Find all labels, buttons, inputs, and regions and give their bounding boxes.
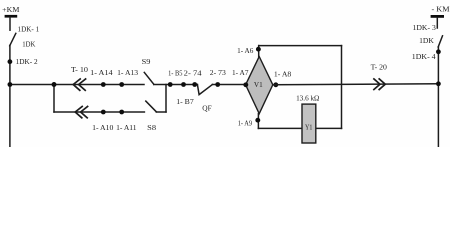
node 2-74 <box>192 82 197 87</box>
node split junction <box>52 82 57 87</box>
svg-text:13.6 kΩ: 13.6 kΩ <box>296 93 320 102</box>
svg-text:S8: S8 <box>147 123 156 132</box>
node T-20 right junction <box>436 81 441 86</box>
node 1-A13 <box>119 82 124 87</box>
wire stub from -KM bar <box>436 18 438 28</box>
wire top loop horizontal <box>259 45 342 47</box>
svg-text:1- B5: 1- B5 <box>168 68 183 77</box>
wire top branch <box>54 84 144 86</box>
svg-text:1- A10: 1- A10 <box>92 123 114 132</box>
svg-text:2- 73: 2- 73 <box>210 68 226 77</box>
svg-text:1DK- 1: 1DK- 1 <box>18 24 40 33</box>
node 1-A11 <box>119 110 124 115</box>
svg-text:+KM: +KM <box>2 5 20 14</box>
svg-text:1- A13: 1- A13 <box>117 68 138 77</box>
wire bottom branch riser right <box>165 85 167 113</box>
switch QF <box>197 85 212 95</box>
wire main horizontal <box>10 84 54 86</box>
wire stub from +KM bar <box>9 17 11 30</box>
svg-text:1- A14: 1- A14 <box>90 68 113 77</box>
connector chevrons bottom branch <box>75 107 87 118</box>
svg-text:1- A9: 1- A9 <box>238 118 253 127</box>
wire after S8 <box>156 111 166 113</box>
node 1-A14 <box>101 82 106 87</box>
switch 1DK left blade <box>10 33 16 45</box>
svg-text:2- 74: 2- 74 <box>184 68 202 77</box>
svg-text:S9: S9 <box>142 57 151 66</box>
wire top loop right drop <box>341 46 343 129</box>
svg-text:1DK: 1DK <box>22 39 36 48</box>
svg-text:T- 20: T- 20 <box>371 63 388 72</box>
connector T-10 chevrons top branch <box>73 79 85 90</box>
svg-text:Y1: Y1 <box>305 122 313 131</box>
svg-text:V1: V1 <box>254 80 263 89</box>
svg-text:QF: QF <box>202 104 211 113</box>
wire bottom branch riser left <box>53 85 55 113</box>
node 1DK-2 <box>7 59 12 64</box>
wire right rail <box>437 47 439 147</box>
switch 1DK right blade <box>438 36 442 47</box>
terminal +KM bar <box>5 15 18 18</box>
connector T-20 chevrons <box>374 79 385 90</box>
node 1DK-4 <box>436 49 441 54</box>
svg-text:1- A8: 1- A8 <box>274 69 292 78</box>
node 1-B7 <box>181 82 186 87</box>
terminal -KM bar <box>431 15 444 18</box>
rectifier V1 <box>246 57 273 114</box>
svg-text:T- 10: T- 10 <box>71 65 88 74</box>
node 1-A9 <box>255 118 260 123</box>
node 1-A8 <box>273 82 278 87</box>
wire V1 bottom stub <box>257 114 259 129</box>
node 2-73 <box>215 82 220 87</box>
svg-text:1- B7: 1- B7 <box>176 97 194 106</box>
svg-text:1- A11: 1- A11 <box>116 123 137 132</box>
wire left rail <box>9 46 11 148</box>
wire 1-A8 to right rail (T-20) <box>273 83 439 86</box>
node 1-B5 <box>168 82 173 87</box>
svg-text:- KM: - KM <box>432 4 450 13</box>
wire QF to V1 <box>212 84 245 86</box>
svg-text:1- A6: 1- A6 <box>237 46 253 55</box>
wire after S9 <box>154 84 198 86</box>
node branch split <box>7 82 12 87</box>
switch S9 blade <box>144 72 154 84</box>
svg-text:1- A7: 1- A7 <box>232 68 249 77</box>
svg-text:1DK- 2: 1DK- 2 <box>16 57 38 66</box>
svg-text:1DK- 3: 1DK- 3 <box>413 23 437 32</box>
wire bottom branch <box>54 111 144 113</box>
svg-text:1DK- 4: 1DK- 4 <box>412 52 436 61</box>
coil Y1 <box>302 104 316 143</box>
switch S8 blade <box>146 101 157 112</box>
svg-text:1DK: 1DK <box>419 36 434 45</box>
node 1-A7 <box>243 82 248 87</box>
node 1-A10 <box>101 110 106 115</box>
wire V1 top stub <box>258 46 260 57</box>
node 1-A6 <box>256 47 261 52</box>
wire bottom loop horizontal <box>258 127 341 129</box>
